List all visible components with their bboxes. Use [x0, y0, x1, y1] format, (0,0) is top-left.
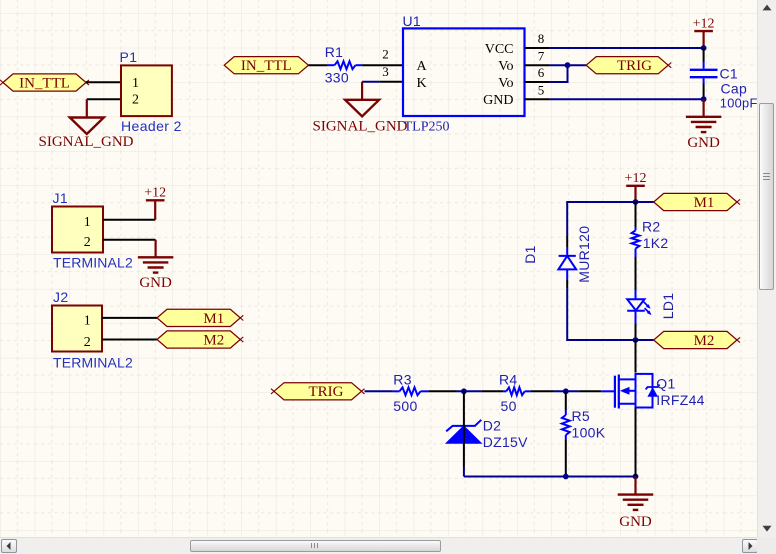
svg-text:R5: R5 — [572, 408, 591, 424]
power +12 (J1) — [144, 186, 166, 220]
scrollbar corner — [757, 537, 776, 554]
wire pin8 to +12 — [549, 47, 704, 49]
svg-text:2: 2 — [132, 92, 139, 107]
wire pin6 up — [549, 65, 568, 82]
wire C1 to GND junction — [703, 78, 705, 99]
resistor R2 — [632, 227, 640, 257]
node TRIG junction — [565, 62, 571, 68]
svg-text:TERMINAL2: TERMINAL2 — [53, 355, 133, 371]
svg-text:1: 1 — [84, 215, 91, 230]
resistor R1 — [327, 61, 362, 69]
port M1 (J2) — [157, 309, 243, 327]
svg-text:6: 6 — [538, 65, 545, 80]
U1 pin name Vo (6) — [498, 76, 513, 91]
wire U1 pin 3 — [362, 81, 403, 83]
zener D2 DZ15V — [446, 420, 481, 444]
wire gate pin — [580, 390, 601, 392]
U1 pin name GND — [483, 93, 513, 108]
U1 pin 7 number — [538, 48, 545, 63]
connector J2 — [52, 306, 102, 352]
wire R3 to R4 — [456, 390, 481, 392]
svg-text:Q1: Q1 — [656, 375, 675, 391]
wire D1 pin bottom — [566, 279, 568, 288]
svg-text:+12: +12 — [144, 186, 166, 201]
svg-text:1: 1 — [132, 76, 139, 91]
label Cap — [721, 81, 748, 97]
wire P1 pin 2 — [87, 98, 121, 100]
J1 pin number 1 — [84, 215, 91, 230]
svg-text:J1: J1 — [53, 190, 69, 206]
wire R3 pin — [428, 390, 456, 392]
P1 pin number 2 — [132, 92, 139, 107]
wire source to rail — [635, 408, 637, 477]
node source rail junction — [633, 474, 639, 480]
diode D1 MUR120 — [558, 247, 576, 279]
svg-text:U1: U1 — [403, 13, 422, 29]
svg-text:+12: +12 — [693, 16, 715, 31]
J1 pin number 2 — [84, 235, 91, 250]
U1 pin 7 — [525, 64, 550, 66]
svg-text:50: 50 — [501, 398, 517, 414]
svg-text:SIGNAL_GND: SIGNAL_GND — [39, 134, 134, 150]
transistor Q1 IRFZ44 — [601, 374, 659, 409]
node VCC junction — [701, 45, 707, 51]
wire R2 to LED — [635, 257, 637, 299]
wire D2 to rail — [463, 443, 465, 476]
svg-text:3: 3 — [382, 64, 389, 79]
wire D1 to M2 — [567, 288, 635, 340]
port IN_TTL (to P1) — [0, 74, 89, 92]
svg-text:M2: M2 — [694, 333, 715, 349]
svg-text:MUR120: MUR120 — [576, 226, 592, 283]
ground GND (C1) — [686, 99, 722, 151]
label R3 — [393, 371, 412, 387]
label D1 — [522, 245, 538, 264]
svg-text:A: A — [417, 59, 428, 74]
svg-text:1: 1 — [84, 314, 91, 329]
U1 pin 8 — [525, 47, 550, 49]
svg-text:J2: J2 — [53, 289, 69, 305]
wire junction to R5 — [565, 391, 567, 410]
svg-text:GND: GND — [483, 93, 513, 108]
vertical scrollbar up arrow — [758, 0, 776, 18]
node GND junction — [701, 96, 707, 102]
label D2 — [483, 418, 502, 434]
svg-text:R3: R3 — [393, 371, 412, 387]
label R5 — [572, 408, 591, 424]
label 100pF — [720, 96, 758, 111]
comment TERMINAL2 (J1) — [53, 255, 133, 271]
horizontal scrollbar thumb — [190, 540, 441, 552]
P1 pin number 1 — [132, 76, 139, 91]
horizontal scrollbar track — [0, 537, 757, 554]
wire R5 to rail — [565, 440, 567, 477]
svg-text:2: 2 — [84, 235, 91, 250]
value 50 — [501, 398, 517, 414]
svg-text:TERMINAL2: TERMINAL2 — [53, 255, 133, 271]
port M2 (J2) — [157, 331, 243, 349]
port M2 (right) — [654, 331, 740, 349]
J2 pin number 1 — [84, 314, 91, 329]
U1 pin 2 number — [382, 46, 389, 61]
power SIGNAL_GND (P1) — [39, 99, 134, 150]
wire junction to D2 — [463, 391, 465, 443]
label MUR120 — [576, 226, 592, 283]
svg-text:R4: R4 — [499, 371, 518, 387]
svg-text:IN_TTL: IN_TTL — [241, 58, 292, 74]
svg-text:M1: M1 — [694, 195, 715, 211]
node gate junction — [563, 388, 569, 394]
capacitor C1 — [690, 70, 718, 77]
vertical scrollbar down arrow — [758, 519, 776, 537]
wire to TRIG port — [568, 64, 587, 66]
svg-text:VCC: VCC — [485, 42, 514, 57]
wire junction to C1 — [703, 48, 705, 69]
comment TERMINAL2 (J2) — [53, 355, 133, 371]
designator P1 — [120, 49, 138, 65]
value 330 — [325, 70, 349, 86]
node M2 junction — [633, 337, 639, 343]
svg-text:8: 8 — [538, 31, 545, 46]
value DZ15V — [483, 434, 528, 450]
designator U1 — [403, 13, 422, 29]
vertical scrollbar thumb — [759, 103, 774, 290]
svg-text:GND: GND — [139, 275, 172, 291]
label LD1 — [660, 293, 676, 320]
svg-text:GND: GND — [619, 514, 652, 530]
wire R4 pin right — [531, 390, 553, 392]
resistor R5 — [562, 410, 570, 440]
ground GND (Q1) — [618, 477, 654, 531]
power +12 (C1 rail) — [693, 16, 715, 48]
designator J1 — [53, 190, 69, 206]
U1 pin 6 number — [538, 65, 545, 80]
node M1 junction — [633, 199, 639, 205]
horizontal scrollbar right arrow button — [742, 539, 758, 553]
svg-text:K: K — [417, 76, 427, 91]
U1 pin name K — [417, 76, 427, 91]
label R1 — [325, 44, 344, 60]
svg-text:100pF: 100pF — [720, 96, 757, 111]
wire J1 pin 2 — [103, 239, 156, 241]
comment Header 2 — [121, 118, 182, 134]
svg-text:TRIG: TRIG — [309, 384, 344, 400]
designator J2 — [53, 289, 69, 305]
port M1 (right) — [654, 193, 740, 211]
svg-text:IN_TTL: IN_TTL — [19, 75, 70, 91]
svg-text:DZ15V: DZ15V — [483, 434, 528, 450]
horizontal scrollbar left arrow button — [1, 539, 17, 553]
svg-text:TLP250: TLP250 — [404, 120, 450, 135]
wire D1 pin top — [566, 236, 568, 247]
label C1 — [720, 65, 739, 81]
U1 pin 8 number — [538, 31, 545, 46]
led LD1 — [627, 299, 651, 315]
svg-text:M2: M2 — [203, 332, 224, 348]
U1 pin 3 number — [382, 64, 389, 79]
wire P1 pin 1 — [86, 81, 121, 83]
ground GND (J1) — [138, 240, 174, 291]
comment TLP250 — [404, 120, 450, 135]
U1 pin 5 — [525, 98, 550, 100]
svg-text:1K2: 1K2 — [643, 235, 669, 251]
svg-text:SIGNAL_GND: SIGNAL_GND — [313, 119, 408, 135]
svg-text:R2: R2 — [642, 219, 661, 235]
svg-text:C1: C1 — [720, 65, 739, 81]
resistor R3 — [393, 387, 429, 395]
power +12 (M rail) — [625, 171, 647, 202]
svg-text:TRIG: TRIG — [617, 58, 652, 74]
value IRFZ44 — [656, 392, 704, 408]
label R4 — [499, 371, 518, 387]
port IN_TTL (to R1) — [224, 57, 308, 75]
svg-text:R1: R1 — [325, 44, 344, 60]
svg-text:P1: P1 — [120, 49, 138, 65]
connector P1 — [121, 65, 172, 116]
U1 pin 6 — [525, 81, 550, 83]
wire TRIG to R3 — [365, 390, 393, 392]
U1 pin name Vo (7) — [498, 59, 513, 74]
svg-text:Cap: Cap — [721, 81, 748, 97]
svg-text:100K: 100K — [572, 425, 606, 441]
wire junction to M1 port — [636, 201, 654, 203]
wire M2 to drain — [635, 340, 637, 373]
wire R4 pin left — [481, 390, 504, 392]
svg-text:Vo: Vo — [498, 76, 513, 91]
svg-text:7: 7 — [538, 48, 545, 63]
svg-text:330: 330 — [325, 70, 349, 86]
svg-text:D2: D2 — [483, 418, 502, 434]
wire R4 to gate — [553, 390, 580, 392]
resistor R4 — [504, 387, 531, 395]
wire bottom rail — [464, 476, 636, 478]
vertical scrollbar track — [757, 0, 776, 537]
op-amp U1 body — [403, 28, 525, 116]
svg-text:D1: D1 — [522, 245, 538, 264]
J2 pin number 2 — [84, 335, 91, 350]
svg-text:IRFZ44: IRFZ44 — [656, 392, 704, 408]
wire pin7 to junction — [549, 64, 568, 66]
svg-text:2: 2 — [84, 335, 91, 350]
label Q1 — [656, 375, 675, 391]
value 100K — [572, 425, 606, 441]
wire junction to R2 — [635, 202, 637, 227]
wire J1 pin 1 — [103, 219, 155, 221]
port TRIG (in) — [271, 383, 365, 401]
wire D1 top — [567, 202, 635, 236]
svg-text:5: 5 — [538, 82, 545, 97]
svg-text:M1: M1 — [203, 311, 224, 327]
value 500 — [393, 398, 417, 414]
wire J2 pin 1 — [102, 317, 157, 319]
svg-text:Header 2: Header 2 — [121, 118, 182, 134]
svg-text:500: 500 — [393, 398, 417, 414]
svg-text:2: 2 — [382, 46, 389, 61]
wire IN_TTL to R1 — [308, 64, 327, 66]
power SIGNAL_GND (U1) — [313, 82, 408, 135]
svg-text:+12: +12 — [625, 171, 647, 186]
node D2 junction — [461, 388, 467, 394]
node R5 rail junction — [563, 474, 569, 480]
wire LED to M2 junction — [635, 311, 637, 340]
svg-text:Vo: Vo — [498, 59, 513, 74]
wire J2 pin 2 — [102, 339, 157, 341]
wire R1 to U1 pin 2 — [362, 64, 403, 66]
U1 pin name A — [417, 59, 428, 74]
wire junction to M2 port — [636, 339, 654, 341]
value 1K2 — [643, 235, 669, 251]
label R2 — [642, 219, 661, 235]
connector J1 — [52, 207, 103, 253]
port TRIG (out) — [586, 57, 671, 75]
svg-text:LD1: LD1 — [660, 293, 676, 320]
U1 pin 5 number — [538, 82, 545, 97]
U1 pin name VCC — [485, 42, 514, 57]
svg-text:GND: GND — [687, 135, 720, 151]
wire pin5 rail — [549, 98, 704, 100]
